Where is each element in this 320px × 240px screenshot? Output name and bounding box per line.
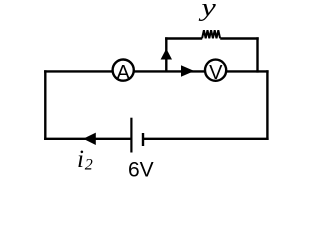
wire bottom right segment [143,138,269,140]
branch current arrow up [161,49,172,60]
wire bottom left segment [44,138,131,140]
svg-text:y: y [198,0,216,22]
wire branch top right [220,37,259,39]
wire left vertical [44,70,46,140]
svg-text:A: A [117,62,131,84]
wire branch top left [165,37,202,39]
current arrow i2 left [83,133,96,145]
battery BT1 short plate [142,133,144,146]
resistor y zigzag [202,30,220,38]
wire top middle segment [134,70,205,72]
svg-text:6V: 6V [128,159,154,182]
battery BT1 long plate [130,118,132,153]
svg-text:V: V [209,62,223,84]
voltmeter U2 circle [205,60,226,81]
node junction riser [165,37,167,71]
wire right vertical [266,70,268,140]
current arrow right [181,65,194,77]
wire top left segment [44,70,113,72]
ammeter U1 circle [113,60,134,81]
svg-text:i2: i2 [77,146,93,174]
wire top right segment [226,70,268,72]
wire branch right vertical [256,37,258,72]
